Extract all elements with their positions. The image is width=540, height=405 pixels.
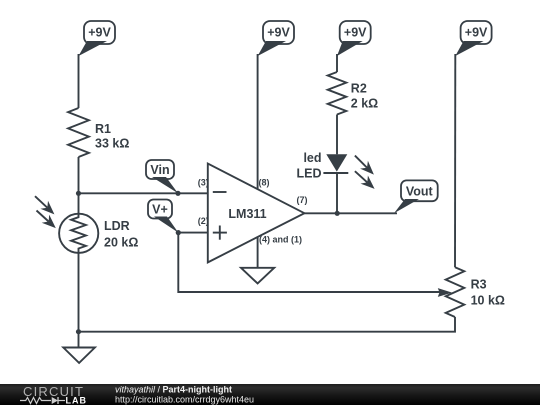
- svg-text:(4) and (1): (4) and (1): [259, 235, 302, 245]
- svg-text:+9V: +9V: [465, 26, 488, 40]
- svg-text:2 kΩ: 2 kΩ: [351, 97, 378, 111]
- wire V+ node to op-amp pin 2: [178, 232, 208, 234]
- wire R2 to LED: [336, 115, 338, 155]
- bottom rail wire to R3: [79, 317, 456, 332]
- svg-text:LM311: LM311: [228, 207, 266, 221]
- resistor R2: [328, 72, 379, 115]
- svg-text:LED: LED: [297, 167, 322, 181]
- svg-text:vithayathil / Part4-night-ligh: vithayathil / Part4-night-light: [115, 385, 232, 395]
- wire op-amp pins 4,1 to ground: [257, 237, 259, 267]
- svg-text:led: led: [303, 151, 321, 165]
- wire LED to output node: [336, 173, 338, 213]
- power +9V label 4: [455, 21, 491, 56]
- node label Vout: [394, 180, 438, 213]
- svg-text:R1: R1: [95, 122, 111, 136]
- resistor R1: [68, 108, 129, 157]
- wire R1 to LDR: [78, 157, 80, 214]
- wire op-amp pin 7 output: [304, 212, 397, 214]
- wire +9V2 to op-amp pin 8: [257, 54, 259, 189]
- wire LDR bottom to ground rail: [78, 253, 80, 332]
- svg-text:+9V: +9V: [88, 26, 111, 40]
- junction node Vin: [175, 191, 180, 196]
- power +9V label 1: [79, 21, 116, 56]
- svg-text:+9V: +9V: [344, 26, 367, 40]
- svg-text:(7): (7): [297, 195, 308, 205]
- node label Vin: [146, 160, 178, 193]
- svg-text:20 kΩ: 20 kΩ: [104, 236, 138, 250]
- svg-text:Vin: Vin: [150, 163, 169, 177]
- svg-text:LAB: LAB: [66, 396, 88, 405]
- photoresistor LDR 20k: [59, 214, 138, 253]
- power +9V label 2: [258, 21, 294, 56]
- light arrow 1 out of LED: [355, 156, 374, 175]
- wiper arrowhead of R3: [438, 288, 452, 297]
- svg-text:(2): (2): [198, 216, 209, 226]
- junction node at ground rail: [76, 329, 81, 334]
- op-amp U1 LM311: [208, 164, 305, 263]
- LED D1: [297, 151, 349, 181]
- light arrow 1 into LDR: [35, 196, 54, 214]
- svg-text:10 kΩ: 10 kΩ: [471, 294, 505, 308]
- wire +9V4 to R3: [454, 54, 456, 267]
- junction node output/LED: [335, 211, 340, 216]
- wire V+ node down to R3 wiper: [178, 233, 440, 292]
- svg-text:R3: R3: [471, 278, 487, 292]
- potentiometer R3: [446, 267, 505, 317]
- svg-text:R2: R2: [351, 82, 367, 96]
- svg-text:V+: V+: [152, 203, 168, 217]
- svg-text:33 kΩ: 33 kΩ: [95, 137, 129, 151]
- wire +9V3 to R2: [336, 54, 338, 72]
- svg-text:(8): (8): [259, 178, 270, 188]
- svg-text:LDR: LDR: [104, 219, 130, 233]
- wire from +9V1 to R1: [78, 54, 80, 108]
- svg-text:Vout: Vout: [406, 185, 434, 199]
- power +9V label 3: [337, 21, 371, 56]
- ground symbol left: [63, 332, 95, 363]
- svg-text:+9V: +9V: [267, 26, 290, 40]
- node label V+: [148, 200, 178, 233]
- wire node to op-amp pin 3: [79, 192, 208, 194]
- footer credit text: [115, 385, 254, 405]
- junction node V+: [176, 230, 181, 235]
- CircuitLab logo: [20, 384, 87, 405]
- svg-text:(3): (3): [198, 177, 209, 187]
- light arrow 2 into LDR: [37, 211, 56, 229]
- light arrow 2 out of LED: [355, 171, 375, 189]
- ground symbol under op-amp: [241, 268, 274, 284]
- junction node at R1/LDR/Vin: [76, 191, 81, 196]
- svg-text:http://circuitlab.com/crrdgy6w: http://circuitlab.com/crrdgy6wht4eu: [115, 395, 254, 405]
